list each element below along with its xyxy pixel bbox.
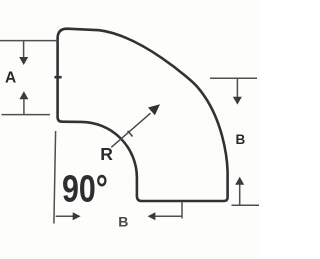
inlet centerline tick on left edge: [54, 76, 61, 79]
elbow body outline: [58, 29, 228, 201]
svg-text:B: B: [118, 213, 128, 229]
dim B right down arrowhead: [233, 97, 242, 105]
dim B bottom right arrowhead: [73, 212, 81, 220]
radius R arrow shaft: [111, 113, 150, 147]
dim B right bottom extension line: [232, 204, 260, 206]
dim A down arrow shaft: [23, 41, 25, 58]
radius R arrowhead: [148, 104, 160, 115]
dim A up arrowhead: [19, 91, 28, 99]
dim B right up arrowhead: [235, 177, 244, 185]
dim B bottom left arrow shaft: [155, 215, 182, 217]
radius R tick mark: [128, 131, 133, 137]
dim A top extension line: [0, 40, 58, 42]
svg-text:90°: 90°: [62, 168, 108, 210]
svg-text:A: A: [5, 70, 16, 87]
dim B right down arrow shaft: [236, 79, 238, 98]
dim B bottom left extension line: [54, 131, 56, 224]
dim B bottom right extension line: [181, 202, 183, 219]
dim B right up arrow shaft: [239, 185, 241, 206]
svg-text:B: B: [236, 132, 246, 147]
dim B bottom right arrow shaft: [56, 215, 73, 217]
dim A up arrow shaft: [23, 99, 25, 114]
dim A bottom extension line: [2, 114, 51, 116]
dim B right top extension line: [210, 77, 257, 79]
dim B bottom left arrowhead: [148, 212, 156, 220]
dim A down arrowhead: [19, 57, 28, 65]
label 90 degrees: [62, 168, 108, 210]
